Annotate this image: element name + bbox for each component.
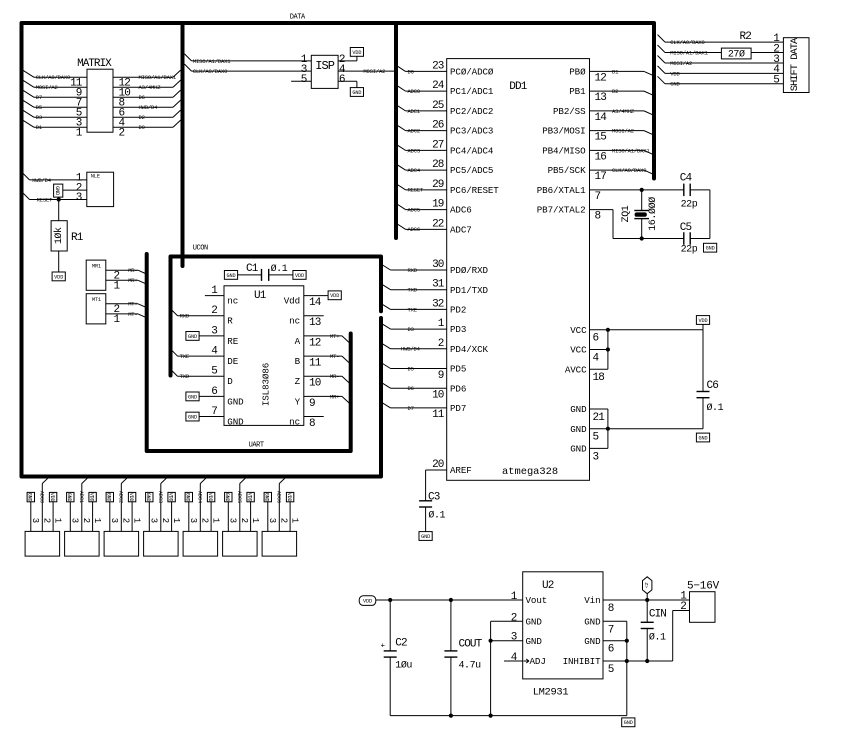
svg-text:GND: GND <box>421 534 430 540</box>
svg-text:12: 12 <box>309 337 321 349</box>
svg-text:VDD: VDD <box>207 493 213 502</box>
svg-text:VDD: VDD <box>295 273 304 279</box>
svg-text:C5: C5 <box>680 222 692 234</box>
svg-text:1: 1 <box>52 518 62 523</box>
svg-text:RESET: RESET <box>37 196 53 203</box>
svg-text:27: 27 <box>432 139 444 151</box>
svg-text:32: 32 <box>432 298 444 310</box>
svg-text:PC4/ADC4: PC4/ADC4 <box>450 145 494 156</box>
svg-text:GND: GND <box>227 396 244 407</box>
svg-text:GND: GND <box>570 424 587 435</box>
svg-text:7: 7 <box>595 191 601 203</box>
svg-text:5: 5 <box>773 75 779 87</box>
svg-text:COUT: COUT <box>459 638 483 650</box>
svg-text:HWB/D4: HWB/D4 <box>32 177 52 184</box>
svg-text:VDD: VDD <box>670 70 680 77</box>
svg-text:VDD: VDD <box>49 493 55 502</box>
svg-text:22: 22 <box>432 218 444 230</box>
svg-text:13: 13 <box>309 317 321 329</box>
svg-text:1Øk: 1Øk <box>53 227 65 244</box>
svg-text:PD4/XCK: PD4/XCK <box>450 344 488 355</box>
svg-text:ADC3: ADC3 <box>408 147 420 154</box>
svg-text:MISO/A1/DAX1: MISO/A1/DAX1 <box>139 74 177 81</box>
svg-text:ADC7: ADC7 <box>450 224 472 235</box>
svg-text:GND: GND <box>526 636 543 647</box>
svg-text:nc: nc <box>289 416 300 427</box>
svg-text:27Ø: 27Ø <box>728 49 745 61</box>
svg-text:PC1/ADC1: PC1/ADC1 <box>450 86 494 97</box>
svg-text:22p: 22p <box>681 200 698 211</box>
svg-text:Y: Y <box>295 396 301 407</box>
svg-text:PD5: PD5 <box>450 364 466 375</box>
svg-text:nc: nc <box>289 316 300 327</box>
svg-text:D7: D7 <box>36 94 42 101</box>
svg-text:VCC: VCC <box>570 345 587 356</box>
svg-text:D6: D6 <box>408 385 414 392</box>
svg-text:VDD: VDD <box>128 493 134 502</box>
svg-text:GND: GND <box>526 616 543 627</box>
svg-text:GND: GND <box>570 404 587 415</box>
svg-text:5: 5 <box>301 74 307 86</box>
svg-text:D0: D0 <box>139 124 145 131</box>
svg-text:D1: D1 <box>36 124 43 131</box>
svg-text:TXE: TXE <box>408 306 418 313</box>
svg-text:9: 9 <box>309 398 315 410</box>
svg-text:MATRIX: MATRIX <box>77 58 112 70</box>
svg-text:RXD: RXD <box>180 313 190 320</box>
svg-text:TXD: TXD <box>180 373 190 380</box>
svg-text:24: 24 <box>432 80 445 92</box>
svg-text:D3: D3 <box>36 114 42 121</box>
svg-text:1: 1 <box>250 518 260 523</box>
svg-text:PB1: PB1 <box>569 86 586 97</box>
svg-text:D2: D2 <box>612 88 618 95</box>
svg-text:ADC6: ADC6 <box>408 226 420 233</box>
svg-text:CLK/A0/DAX0: CLK/A0/DAX0 <box>36 74 70 81</box>
svg-text:PB6/XTAL1: PB6/XTAL1 <box>537 185 586 196</box>
svg-text:3: 3 <box>70 518 80 523</box>
svg-text:22p: 22p <box>681 245 698 256</box>
svg-text:MT1: MT1 <box>92 297 101 303</box>
svg-text:ADC2: ADC2 <box>118 491 124 503</box>
svg-text:10: 10 <box>432 390 444 402</box>
svg-text:GND: GND <box>54 186 60 195</box>
svg-text:PC6/RESET: PC6/RESET <box>450 185 499 196</box>
svg-text:15: 15 <box>595 132 607 144</box>
svg-text:PB2/SS: PB2/SS <box>553 106 586 117</box>
svg-text:30: 30 <box>432 259 444 271</box>
svg-text:GND: GND <box>27 493 33 502</box>
svg-text:6: 6 <box>608 644 614 656</box>
svg-text:VDD: VDD <box>54 274 63 280</box>
svg-text:2: 2 <box>239 518 249 523</box>
svg-text:14: 14 <box>309 297 322 309</box>
svg-text:MT+: MT+ <box>128 301 137 308</box>
svg-text:3: 3 <box>267 518 277 523</box>
svg-text:MR+: MR+ <box>330 393 339 400</box>
svg-text:2: 2 <box>160 518 170 523</box>
svg-text:23: 23 <box>432 60 444 72</box>
svg-text:GND: GND <box>224 493 230 502</box>
svg-text:GND: GND <box>226 273 235 279</box>
svg-text:5−16V: 5−16V <box>687 581 720 593</box>
svg-text:C4: C4 <box>680 173 693 185</box>
svg-text:C6: C6 <box>707 380 719 392</box>
svg-text:DATA: DATA <box>290 13 306 21</box>
svg-text:MR+: MR+ <box>128 277 137 284</box>
svg-text:VDD: VDD <box>330 293 339 299</box>
svg-text:1: 1 <box>210 518 220 523</box>
svg-text:TXD: TXD <box>408 287 418 294</box>
svg-text:D: D <box>227 376 233 387</box>
svg-text:PCØ/ADCØ: PCØ/ADCØ <box>450 67 494 78</box>
svg-text:UART: UART <box>249 442 264 450</box>
svg-text:11: 11 <box>432 409 445 421</box>
svg-text:ADC0: ADC0 <box>39 491 45 503</box>
svg-text:PB7/XTAL2: PB7/XTAL2 <box>537 205 586 216</box>
svg-text:GND: GND <box>188 334 197 340</box>
svg-text:31: 31 <box>432 279 445 291</box>
svg-text:GND: GND <box>227 416 244 427</box>
svg-text:ADC6: ADC6 <box>450 205 472 216</box>
svg-text:6: 6 <box>339 74 345 86</box>
svg-text:INHIBIT: INHIBIT <box>563 656 601 667</box>
svg-text:GND: GND <box>264 493 270 502</box>
svg-text:GND: GND <box>106 493 112 502</box>
svg-text:AREF: AREF <box>450 465 472 476</box>
svg-text:MR-: MR- <box>330 373 339 380</box>
svg-text:B: B <box>295 356 301 367</box>
svg-text:Z: Z <box>295 376 301 387</box>
svg-text:MOSI/A2: MOSI/A2 <box>363 68 385 75</box>
svg-text:20: 20 <box>432 459 444 471</box>
svg-text:2: 2 <box>279 518 289 523</box>
svg-text:PD7: PD7 <box>450 403 466 414</box>
svg-text:ISP: ISP <box>315 59 334 73</box>
svg-text:A3/4MHZ: A3/4MHZ <box>139 84 162 91</box>
svg-text:RESET: RESET <box>408 187 424 194</box>
svg-text:GND: GND <box>624 720 633 726</box>
svg-text:R: R <box>227 316 233 327</box>
svg-text:4.7u: 4.7u <box>459 661 482 672</box>
svg-text:A3/4MHZ: A3/4MHZ <box>612 108 635 115</box>
svg-text:+: + <box>381 642 386 650</box>
svg-text:VDD: VDD <box>89 493 95 502</box>
svg-text:D3: D3 <box>408 326 414 333</box>
svg-text:AVCC: AVCC <box>565 364 587 375</box>
svg-text:C3: C3 <box>428 491 440 503</box>
svg-text:GND: GND <box>584 616 601 627</box>
svg-text:MISO/A1/DAX1: MISO/A1/DAX1 <box>193 58 231 65</box>
svg-text:ADC3: ADC3 <box>157 491 163 503</box>
svg-text:ADC4: ADC4 <box>408 167 421 174</box>
svg-text:CIN: CIN <box>649 609 666 621</box>
svg-text:CLK/A0/DAX0: CLK/A0/DAX0 <box>612 167 646 174</box>
svg-text:GND: GND <box>145 493 151 502</box>
svg-text:CLK/A0/DAX0: CLK/A0/DAX0 <box>193 68 227 75</box>
svg-text:MISO/A1/DAX1: MISO/A1/DAX1 <box>670 49 708 56</box>
svg-text:LM2931: LM2931 <box>533 686 569 698</box>
svg-text:19: 19 <box>432 199 444 211</box>
svg-text:MOSI/A2: MOSI/A2 <box>36 84 58 91</box>
svg-text:16: 16 <box>595 151 607 163</box>
svg-text:MR1: MR1 <box>92 263 101 269</box>
svg-text:PB5/SCK: PB5/SCK <box>548 165 586 176</box>
svg-text:9: 9 <box>438 370 444 382</box>
svg-text:ZQ1: ZQ1 <box>621 205 632 222</box>
svg-text:MOSI/A2: MOSI/A2 <box>670 60 692 67</box>
svg-text:10: 10 <box>309 378 321 390</box>
svg-text:VDD: VDD <box>698 318 707 324</box>
svg-text:17: 17 <box>595 171 607 183</box>
svg-text:MT+: MT+ <box>330 333 339 340</box>
svg-text:3: 3 <box>188 518 198 523</box>
svg-text:NLE: NLE <box>91 174 100 180</box>
svg-text:8: 8 <box>309 418 315 430</box>
svg-text:8: 8 <box>595 211 601 223</box>
svg-text:3: 3 <box>149 518 159 523</box>
svg-text:ISL83Ø86: ISL83Ø86 <box>261 363 272 406</box>
svg-text:U2: U2 <box>542 580 554 592</box>
svg-text:MT-: MT- <box>128 311 137 318</box>
svg-text:25: 25 <box>432 100 444 112</box>
svg-text:A: A <box>295 336 301 347</box>
svg-text:C2: C2 <box>395 637 407 649</box>
svg-text:ADC2: ADC2 <box>408 128 420 135</box>
svg-text:MOSI/A2: MOSI/A2 <box>612 128 634 135</box>
svg-text:HWB/D4: HWB/D4 <box>401 346 421 353</box>
svg-text:PBØ: PBØ <box>569 67 586 78</box>
svg-text:ADC1: ADC1 <box>408 108 421 115</box>
svg-text:MT-: MT- <box>330 353 339 360</box>
svg-text:16.ØØØ: 16.ØØØ <box>647 197 659 231</box>
svg-text:R2: R2 <box>740 31 752 43</box>
svg-text:3: 3 <box>30 518 40 523</box>
svg-text:3: 3 <box>228 518 238 523</box>
svg-text:2: 2 <box>680 601 686 613</box>
svg-text:7: 7 <box>608 624 614 636</box>
svg-text:VDD: VDD <box>168 493 174 502</box>
svg-text:VDD: VDD <box>286 493 292 502</box>
svg-text:GND: GND <box>570 444 587 455</box>
svg-text:nc: nc <box>227 296 238 307</box>
svg-text:6: 6 <box>593 333 599 345</box>
svg-text:3: 3 <box>109 518 119 523</box>
svg-text:GND: GND <box>185 493 191 502</box>
svg-text:TXE: TXE <box>180 353 190 360</box>
svg-text:3: 3 <box>76 192 82 204</box>
svg-text:VDD: VDD <box>363 599 372 605</box>
svg-text:21: 21 <box>593 412 606 424</box>
svg-text:PB4/MISO: PB4/MISO <box>542 145 586 156</box>
svg-text:13: 13 <box>595 92 607 104</box>
svg-text:28: 28 <box>432 159 444 171</box>
svg-text:2: 2 <box>81 518 91 523</box>
svg-text:MISO/A1/DAX1: MISO/A1/DAX1 <box>612 147 650 154</box>
svg-text:GND: GND <box>670 81 680 88</box>
svg-text:Vdd: Vdd <box>284 296 300 307</box>
svg-text:PD1/TXD: PD1/TXD <box>450 285 488 296</box>
svg-text:PD6: PD6 <box>450 383 466 394</box>
svg-text:RXD: RXD <box>408 267 418 274</box>
svg-text:DD1: DD1 <box>509 81 527 93</box>
svg-text:UCON: UCON <box>193 245 208 253</box>
svg-text:VDD: VDD <box>352 50 361 56</box>
svg-text:2: 2 <box>200 518 210 523</box>
svg-text:R1: R1 <box>71 232 84 244</box>
svg-text:2: 2 <box>119 128 125 140</box>
svg-text:2: 2 <box>42 518 52 523</box>
svg-text:D0: D0 <box>408 68 414 75</box>
svg-text:1: 1 <box>289 518 299 523</box>
svg-text:2: 2 <box>121 518 131 523</box>
svg-text:GND: GND <box>352 90 361 96</box>
svg-text:PD2: PD2 <box>450 305 466 316</box>
svg-text:3: 3 <box>511 632 517 644</box>
svg-text:Ø.1: Ø.1 <box>428 510 445 522</box>
svg-text:Vout: Vout <box>526 595 548 606</box>
svg-text:CLK/A0/DAX0: CLK/A0/DAX0 <box>670 39 704 46</box>
svg-text:DE: DE <box>227 356 238 367</box>
svg-text:ADC0: ADC0 <box>408 88 420 95</box>
svg-text:11: 11 <box>309 357 322 369</box>
svg-text:MR-: MR- <box>128 267 137 274</box>
svg-text:SHIFT DATA: SHIFT DATA <box>789 37 801 91</box>
svg-text:PC2/ADC2: PC2/ADC2 <box>450 106 493 117</box>
svg-text:Z>: Z> <box>643 583 649 589</box>
svg-text:5: 5 <box>593 432 599 444</box>
svg-text:C1: C1 <box>246 263 259 275</box>
svg-text:29: 29 <box>432 179 444 191</box>
svg-text:1Øu: 1Øu <box>395 660 412 672</box>
svg-text:D5: D5 <box>408 365 414 372</box>
svg-text:D7: D7 <box>408 405 414 412</box>
svg-text:ADC5: ADC5 <box>236 491 242 503</box>
svg-text:GND: GND <box>584 636 601 647</box>
svg-text:PD3: PD3 <box>450 324 466 335</box>
svg-text:2: 2 <box>511 612 517 624</box>
svg-text:Ø.1: Ø.1 <box>271 263 288 275</box>
svg-text:1: 1 <box>92 518 102 523</box>
svg-text:U1: U1 <box>254 290 267 302</box>
svg-text:atmega328: atmega328 <box>502 466 558 478</box>
svg-text:PC5/ADC5: PC5/ADC5 <box>450 165 493 176</box>
svg-text:Ø.1: Ø.1 <box>707 402 724 414</box>
svg-text:PC3/ADC3: PC3/ADC3 <box>450 126 493 137</box>
svg-text:8: 8 <box>608 603 614 615</box>
svg-text:ADC1: ADC1 <box>78 491 84 503</box>
svg-text:D5: D5 <box>36 104 42 111</box>
svg-text:D2: D2 <box>139 114 145 121</box>
svg-text:3: 3 <box>593 451 599 463</box>
svg-text:VCC: VCC <box>570 325 587 336</box>
svg-text:Vin: Vin <box>584 595 600 606</box>
svg-text:12: 12 <box>595 72 607 84</box>
svg-text:GND: GND <box>706 246 715 252</box>
svg-text:18: 18 <box>593 372 605 384</box>
svg-text:1: 1 <box>171 518 181 523</box>
svg-text:ADJ: ADJ <box>530 656 546 667</box>
svg-text:2: 2 <box>438 338 444 350</box>
svg-text:14: 14 <box>595 112 608 124</box>
svg-text:ADC6: ADC6 <box>276 491 282 503</box>
svg-text:ADC4: ADC4 <box>197 491 203 503</box>
svg-text:GND: GND <box>188 414 197 420</box>
svg-text:D1: D1 <box>612 68 619 75</box>
svg-text:5: 5 <box>608 664 614 676</box>
svg-text:GND: GND <box>188 394 197 400</box>
svg-text:PDØ/RXD: PDØ/RXD <box>450 265 488 276</box>
svg-text:HWB/D4: HWB/D4 <box>139 104 159 111</box>
svg-text:GND: GND <box>698 435 707 441</box>
svg-text:GND: GND <box>66 493 72 502</box>
svg-text:Ø.1: Ø.1 <box>649 632 666 644</box>
svg-text:PB3/MOSI: PB3/MOSI <box>542 126 585 137</box>
svg-text:VDD: VDD <box>247 493 253 502</box>
svg-text:RE: RE <box>227 336 238 347</box>
svg-text:ADC5: ADC5 <box>408 206 420 213</box>
svg-text:1: 1 <box>131 518 141 523</box>
svg-text:D6: D6 <box>139 94 145 101</box>
svg-text:26: 26 <box>432 120 444 132</box>
